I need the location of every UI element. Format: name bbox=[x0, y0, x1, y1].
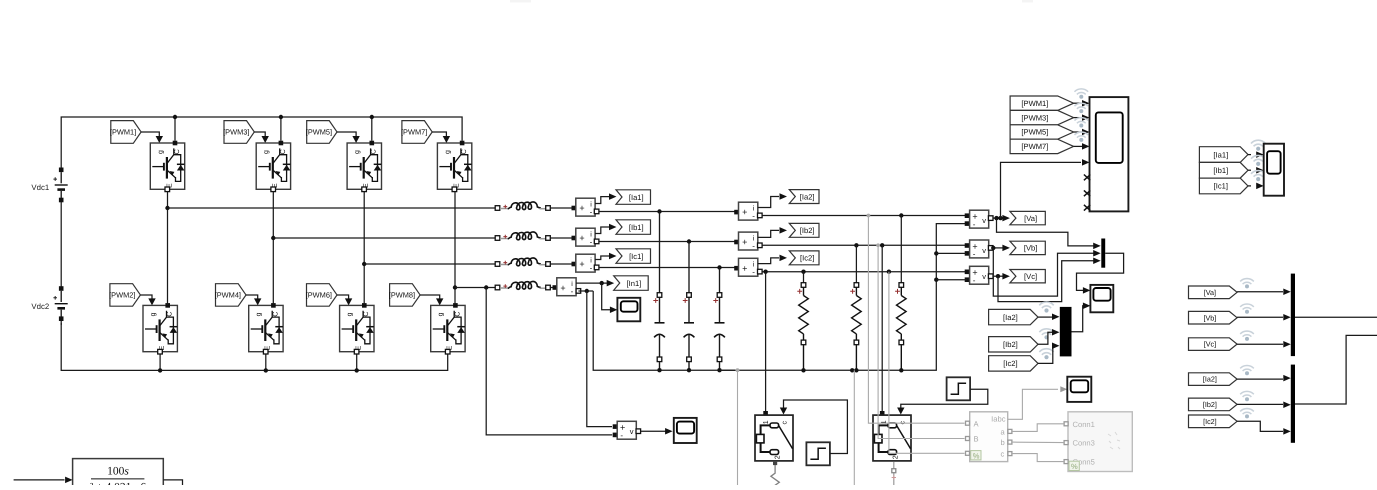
inductor Lc bbox=[495, 262, 500, 267]
breaker B1 bbox=[755, 411, 793, 461]
from tag [Ia2] (output) bbox=[1189, 373, 1238, 386]
inductor Ln bbox=[495, 285, 500, 290]
subsystem block (commented out) bbox=[1064, 412, 1132, 472]
wire: Ia2 to mux bbox=[1038, 314, 1060, 321]
svg-text:[Vc]: [Vc] bbox=[1204, 340, 1216, 349]
wire: gate drive bbox=[420, 295, 443, 305]
wire: to mux bbox=[1237, 341, 1291, 348]
svg-text:c: c bbox=[1001, 450, 1005, 459]
gray wire: A tap to Iabc bbox=[868, 216, 964, 424]
wire: phase A to Va bbox=[762, 213, 967, 217]
svg-text:Conn3: Conn3 bbox=[1073, 439, 1095, 448]
wire: Ib1 signal bbox=[595, 224, 616, 234]
from tag [Vc] (output) bbox=[1189, 338, 1238, 351]
svg-text:B: B bbox=[974, 435, 979, 444]
wire: Lb out bbox=[550, 237, 576, 239]
wire: mux I output (exits right) bbox=[1295, 335, 1377, 404]
scope Iabc (gray wire) bbox=[1067, 377, 1091, 402]
svg-text:[Ia1]: [Ia1] bbox=[629, 193, 644, 202]
wire: to scope bbox=[1248, 167, 1264, 174]
goto tag [Ib1] bbox=[616, 220, 651, 235]
wire: leg midpoint bbox=[362, 192, 366, 306]
voltage sensor Vc bbox=[965, 266, 993, 285]
from tag [Ic2] (readback) bbox=[989, 356, 1038, 371]
wire: leg midpoint bbox=[165, 192, 169, 306]
wire: to mux bbox=[1237, 289, 1291, 296]
svg-text:Vdc1: Vdc1 bbox=[31, 183, 49, 192]
wire: scope input 5 bbox=[1082, 159, 1090, 166]
mux I out bbox=[1291, 365, 1295, 443]
current sensor In1 bbox=[553, 278, 581, 296]
wire: PWM to scope bbox=[1074, 114, 1090, 121]
wire: neutral line bbox=[455, 285, 496, 289]
transfer function block bbox=[73, 459, 164, 490]
wire: PWM to scope bbox=[1074, 100, 1090, 107]
transistor IGBT8 (lower leg 4) bbox=[431, 303, 465, 354]
svg-text:[Ib2]: [Ib2] bbox=[800, 226, 815, 235]
current sensor Ic2 bbox=[734, 258, 762, 276]
svg-text:[Ia2]: [Ia2] bbox=[1203, 375, 1217, 384]
mux V out bbox=[1291, 274, 1295, 357]
faint remnant bbox=[510, 0, 531, 3]
svg-text:[PWM1]: [PWM1] bbox=[1021, 99, 1048, 108]
from tag [Ic1] (readback) bbox=[1199, 178, 1248, 194]
svg-text:[Ib1]: [Ib1] bbox=[1213, 166, 1228, 175]
wire: to mux bbox=[1237, 402, 1291, 409]
wire: DC top bus bbox=[61, 115, 462, 143]
capacitor Cb bbox=[688, 242, 690, 293]
transistor IGBT3 (upper leg 2) bbox=[256, 141, 290, 192]
capacitor Ca bbox=[659, 212, 661, 293]
svg-text:[Ic1]: [Ic1] bbox=[629, 252, 643, 261]
wifi icon bbox=[1240, 409, 1254, 415]
block Iabc (commented out) bbox=[966, 412, 1012, 462]
wire: breaker1 feed bbox=[765, 272, 767, 412]
wire: phase B link bbox=[599, 239, 739, 243]
svg-text:b: b bbox=[1001, 438, 1005, 447]
wifi icon bbox=[1240, 279, 1254, 285]
svg-text:[Va]: [Va] bbox=[1204, 288, 1216, 297]
svg-text:[Ia2]: [Ia2] bbox=[1003, 313, 1018, 322]
transistor IGBT5 (upper leg 3) bbox=[347, 141, 381, 192]
scope I inverter bbox=[1264, 144, 1284, 196]
scope PWM (8 inputs) bbox=[1090, 97, 1129, 211]
wire: to mux bbox=[1237, 314, 1291, 321]
wifi icon bbox=[1039, 349, 1053, 355]
wifi icon bbox=[1240, 304, 1254, 310]
svg-text:Iabc: Iabc bbox=[991, 415, 1006, 424]
from tag [Ia1] (readback) bbox=[1199, 147, 1248, 163]
wire: PWM to scope bbox=[1074, 143, 1090, 150]
svg-text:+: + bbox=[560, 283, 565, 293]
from tag [PWM5] (readback) bbox=[1010, 125, 1074, 139]
current sensor Ib1 bbox=[572, 228, 599, 246]
from tag [Ic2] (output) bbox=[1189, 415, 1238, 428]
svg-text:[PWM4]: [PWM4] bbox=[215, 291, 241, 300]
wire: tf input bbox=[14, 477, 73, 484]
wire: to mux bbox=[1237, 375, 1291, 382]
svg-text:-: - bbox=[973, 276, 976, 285]
from tag [PWM1] (readback) bbox=[1010, 96, 1074, 110]
svg-text:Vdc2: Vdc2 bbox=[31, 302, 49, 311]
wifi icon bbox=[1240, 391, 1254, 397]
gray wire: b to Conn3 bbox=[1012, 441, 1064, 444]
voltage source Vdc1 bbox=[59, 168, 64, 173]
current sensor Ic1 bbox=[572, 254, 599, 272]
svg-text:[PWM8]: [PWM8] bbox=[389, 291, 415, 300]
wire: gate drive bbox=[140, 295, 155, 305]
from tag [PWM4] (gate) bbox=[216, 284, 247, 307]
unconnected input X1 bbox=[1084, 175, 1090, 181]
svg-text:[PWM5]: [PWM5] bbox=[306, 128, 332, 137]
goto tag [Vc] bbox=[1010, 270, 1045, 283]
wifi icon bbox=[1251, 140, 1265, 146]
svg-text:[PWM2]: [PWM2] bbox=[109, 291, 135, 300]
svg-text:[In1]: [In1] bbox=[627, 279, 642, 288]
wire: DC bottom bus bbox=[61, 323, 448, 373]
svg-text:%: % bbox=[973, 452, 980, 461]
svg-text:[Ic1]: [Ic1] bbox=[1214, 182, 1228, 191]
transistor IGBT4 (lower leg 2) bbox=[249, 303, 283, 354]
svg-text:[Ia2]: [Ia2] bbox=[800, 192, 815, 201]
wifi icon bbox=[1074, 103, 1088, 109]
gray wire: c to Conn5 bbox=[1012, 454, 1064, 462]
wire: step1 to breaker1 c bbox=[780, 400, 848, 454]
scope V load bbox=[1090, 285, 1113, 312]
svg-text:-: - bbox=[973, 220, 976, 229]
wire: PWM to scope bbox=[1074, 129, 1090, 136]
wire: phase A line bbox=[168, 207, 497, 209]
svg-text:v: v bbox=[982, 216, 986, 225]
svg-text:[Ib2]: [Ib2] bbox=[1203, 400, 1217, 409]
from tag [PWM7] (readback) bbox=[1010, 139, 1074, 153]
svg-text:1: 1 bbox=[763, 420, 770, 424]
transistor IGBT1 (upper leg 1) bbox=[150, 141, 184, 192]
svg-text:Conn1: Conn1 bbox=[1073, 420, 1095, 429]
wire: Ic2 to mux bbox=[1038, 343, 1060, 364]
wire: Ia1 signal bbox=[595, 193, 616, 203]
wire: Ib2 signal bbox=[758, 227, 787, 237]
wifi icon bbox=[1074, 89, 1088, 95]
wire: In1 to scope bbox=[602, 283, 618, 313]
wifi icon bbox=[1039, 329, 1053, 335]
goto tag [Ic2] bbox=[789, 251, 819, 265]
wire: mux V output (exits right) bbox=[1295, 316, 1377, 318]
svg-text:100s: 100s bbox=[107, 466, 129, 478]
wire: mux to scope2 bbox=[1077, 253, 1124, 293]
gray wire: C tap to Iabc bbox=[889, 272, 965, 454]
gray branch below breaker2 bbox=[892, 462, 896, 485]
capacitor Cc bbox=[719, 268, 721, 293]
wire: to mux bbox=[1237, 421, 1291, 434]
wire: cap bus to load bus bbox=[720, 224, 968, 371]
wire: step2 to breaker2 c bbox=[897, 389, 988, 414]
wire: tf output bbox=[163, 480, 182, 485]
from tag [PWM2] (gate) bbox=[110, 284, 140, 307]
svg-text:-: - bbox=[620, 431, 623, 440]
svg-text:[Va]: [Va] bbox=[1024, 214, 1037, 223]
wifi icon bbox=[1074, 132, 1088, 138]
from tag [PWM3] (readback) bbox=[1010, 110, 1074, 124]
mux Iabc2 bbox=[1060, 307, 1072, 357]
scope Vn bbox=[674, 418, 697, 443]
wire: Ic2 signal bbox=[758, 255, 787, 264]
svg-text:[PWM6]: [PWM6] bbox=[306, 291, 332, 300]
svg-text:[PWM1]: [PWM1] bbox=[110, 128, 136, 137]
from tag [PWM1] (gate) bbox=[111, 121, 141, 144]
wire: DC link between sources bbox=[60, 143, 62, 170]
from tag [PWM5] (gate) bbox=[307, 121, 337, 144]
wire: neutral pre-inductor drop bbox=[486, 288, 612, 435]
svg-text:[PWM7]: [PWM7] bbox=[401, 128, 427, 137]
wire: phase B to Vb bbox=[762, 243, 967, 247]
breaker B2 bbox=[873, 411, 911, 461]
from tag [Vb] (output) bbox=[1189, 311, 1238, 324]
current sensor Ia1 bbox=[572, 198, 599, 216]
wire: phase C link bbox=[599, 265, 739, 269]
transistor IGBT6 (lower leg 3) bbox=[340, 303, 374, 354]
svg-text:[Vc]: [Vc] bbox=[1024, 272, 1037, 281]
wifi icon bbox=[1039, 302, 1053, 308]
node: gray tap on bus bbox=[736, 368, 740, 485]
wire: leg midpoint bbox=[453, 192, 457, 306]
wire: Va out bbox=[993, 215, 1010, 222]
gray wire: B tap to Iabc bbox=[878, 245, 964, 438]
svg-text:[Ib1]: [Ib1] bbox=[629, 223, 644, 232]
svg-text:%: % bbox=[1071, 462, 1078, 471]
svg-text:+: + bbox=[742, 237, 747, 247]
wire: Vc to mux bbox=[998, 257, 1101, 301]
svg-text:+: + bbox=[579, 203, 584, 213]
from tag [Va] (output) bbox=[1189, 286, 1238, 299]
wire: gate drive bbox=[337, 132, 360, 143]
svg-text:[PWM5]: [PWM5] bbox=[1021, 128, 1048, 137]
wire: Vb to mux bbox=[993, 248, 1100, 296]
svg-text:-: - bbox=[590, 238, 593, 247]
gray wire: a to Conn1 bbox=[1012, 424, 1064, 432]
mux Vabc bbox=[1101, 239, 1105, 268]
goto tag [Ia2] bbox=[789, 190, 819, 204]
from tag [PWM8] (gate) bbox=[390, 284, 421, 307]
svg-text:[Vb]: [Vb] bbox=[1024, 244, 1038, 253]
from tag [Ib2] (output) bbox=[1189, 398, 1238, 411]
goto tag [Ic1] bbox=[616, 249, 651, 263]
wifi icon bbox=[1251, 155, 1265, 161]
svg-text:v: v bbox=[982, 272, 986, 281]
resistor R1 (phase C load) bbox=[797, 272, 808, 373]
inductor La bbox=[495, 206, 500, 211]
wire: In1 signal bbox=[576, 280, 614, 287]
wire: leg midpoint bbox=[271, 192, 275, 306]
current sensor Ib2 bbox=[734, 232, 762, 250]
svg-text:[Ic2]: [Ic2] bbox=[800, 254, 814, 263]
svg-text:2: 2 bbox=[774, 455, 781, 459]
from tag [PWM3] (gate) bbox=[224, 121, 254, 144]
svg-text:v: v bbox=[630, 427, 634, 436]
current sensor Ia2 bbox=[734, 202, 762, 220]
unconnected input X2 bbox=[1084, 190, 1090, 196]
goto tag [In1] bbox=[614, 276, 649, 291]
svg-text:+: + bbox=[579, 259, 584, 269]
voltage source Vdc2 bbox=[59, 286, 64, 291]
goto tag [Ia1] bbox=[616, 190, 651, 205]
scope In1 bbox=[617, 298, 640, 322]
unconnected input X3 bbox=[1084, 205, 1090, 211]
svg-text:[PWM3]: [PWM3] bbox=[1021, 113, 1048, 122]
svg-text:-: - bbox=[752, 268, 755, 277]
wire: Ln out bbox=[550, 287, 557, 289]
wire: Va to scope bbox=[1001, 162, 1082, 218]
inductor Lb bbox=[495, 236, 500, 241]
from tag [Ia2] (readback) bbox=[989, 309, 1038, 324]
wire: Lc out bbox=[550, 263, 576, 265]
wire: gate drive bbox=[337, 295, 352, 305]
wire: to scope bbox=[1248, 183, 1264, 190]
from tag [Ib1] (readback) bbox=[1199, 162, 1248, 178]
wire: Ib2 to mux bbox=[1038, 329, 1060, 344]
wire: neutral to Vc- bbox=[934, 278, 967, 282]
wifi icon bbox=[1240, 365, 1254, 371]
wire: Vc out bbox=[993, 273, 1010, 280]
wire: phase C line bbox=[364, 263, 496, 265]
wire: gate drive bbox=[141, 132, 163, 143]
svg-text:+: + bbox=[742, 263, 747, 273]
wire: mux i to scope2 bbox=[1072, 303, 1091, 332]
wire: phase A link bbox=[599, 209, 739, 213]
resistor R2 (phase B load) bbox=[850, 245, 861, 372]
wire: Ic1 signal bbox=[595, 253, 616, 260]
wire: neutral minus branch bbox=[578, 289, 735, 427]
svg-text:[PWM7]: [PWM7] bbox=[1021, 142, 1048, 151]
gray wire: Iabc out to scope bbox=[1008, 389, 1058, 419]
voltage sensor Vb bbox=[965, 240, 993, 259]
svg-text:[Ic2]: [Ic2] bbox=[1203, 417, 1217, 426]
from tag [PWM6] (gate) bbox=[307, 284, 338, 307]
gray arrow bbox=[1060, 386, 1067, 392]
svg-text:[PWM3]: [PWM3] bbox=[223, 128, 249, 137]
wire: to scope bbox=[1248, 151, 1264, 158]
svg-text:[Ic2]: [Ic2] bbox=[1003, 359, 1017, 368]
svg-text:v: v bbox=[982, 246, 986, 255]
wire: La out bbox=[550, 207, 576, 209]
wire: phase C to Vc bbox=[762, 270, 967, 274]
step block Step2 bbox=[947, 377, 971, 400]
from tag [Ib2] (readback) bbox=[989, 337, 1038, 352]
transistor IGBT7 (upper leg 4) bbox=[437, 141, 471, 192]
wire: gate drive bbox=[254, 132, 269, 143]
wire: breaker2 feed bbox=[881, 245, 883, 411]
wire: gate drive bbox=[246, 295, 261, 305]
goto tag [Vb] bbox=[1010, 241, 1045, 254]
svg-text:[Ib2]: [Ib2] bbox=[1003, 340, 1018, 349]
from tag [PWM7] (gate) bbox=[402, 121, 432, 144]
wire: Va to mux bbox=[997, 218, 1101, 249]
wire: Vn to scope bbox=[641, 428, 673, 435]
svg-text:c: c bbox=[900, 421, 907, 425]
wire: neutral to Vb- bbox=[934, 251, 967, 255]
svg-text:-: - bbox=[590, 264, 593, 273]
step block Step1 bbox=[806, 442, 830, 465]
svg-text:-: - bbox=[973, 250, 976, 259]
svg-text:+: + bbox=[742, 207, 747, 217]
wifi icon bbox=[1251, 171, 1265, 177]
svg-text:-: - bbox=[752, 242, 755, 251]
wifi icon bbox=[1240, 331, 1254, 337]
goto tag [Va] bbox=[1010, 211, 1045, 224]
transistor IGBT2 (lower leg 1) bbox=[143, 303, 177, 354]
resistor R3 (phase A load) bbox=[895, 216, 906, 373]
svg-text:[Vb]: [Vb] bbox=[1204, 313, 1217, 322]
svg-text:2: 2 bbox=[892, 455, 899, 459]
svg-text:[Ia1]: [Ia1] bbox=[1213, 150, 1228, 159]
gray wire: bus drop bbox=[853, 370, 855, 485]
voltage sensor Vn bbox=[613, 421, 641, 440]
wifi icon bbox=[1074, 118, 1088, 124]
svg-text:-: - bbox=[571, 287, 574, 296]
wire: Vb out bbox=[991, 245, 1010, 252]
gray ground resistor below breaker1 bbox=[771, 461, 779, 486]
svg-text:+: + bbox=[579, 233, 584, 243]
wire: phase B line bbox=[273, 237, 496, 239]
svg-text:-: - bbox=[752, 212, 755, 221]
wire: gate drive bbox=[432, 132, 450, 143]
goto tag [Ib2] bbox=[789, 223, 819, 237]
svg-text:s² + 4.021e-6s: s² + 4.021e-6s bbox=[85, 482, 151, 485]
svg-text:-: - bbox=[590, 208, 593, 217]
svg-text:c: c bbox=[782, 421, 789, 425]
voltage sensor Va bbox=[965, 210, 993, 229]
wire: Ia2 signal bbox=[758, 193, 787, 207]
